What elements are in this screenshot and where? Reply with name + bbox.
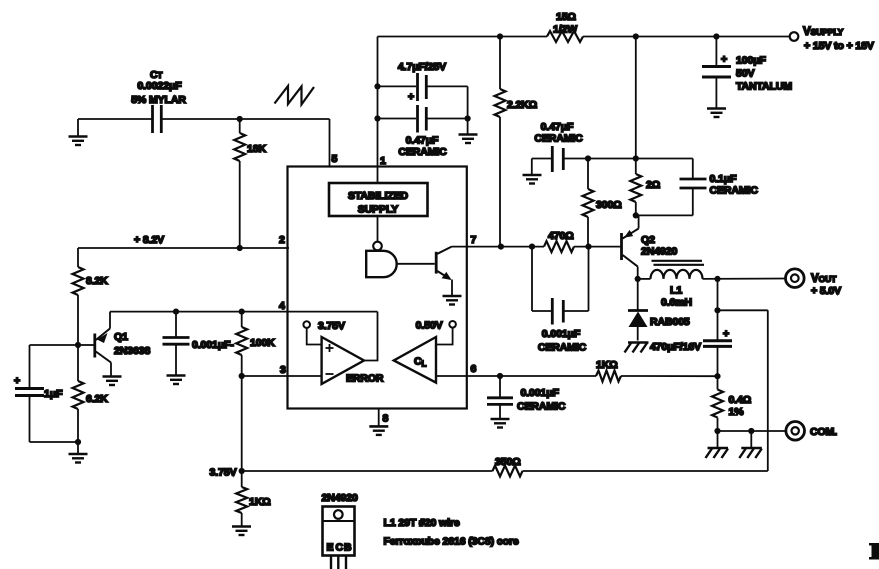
resistor 300 ohm: [587, 159, 589, 190]
node junction pin1/4.7uF: [374, 83, 380, 89]
svg-text:CL: CL: [414, 356, 426, 369]
wire gate output to internal transistor base: [398, 263, 435, 265]
svg-text:0.50V: 0.50V: [416, 320, 443, 332]
svg-text:Ferroxcube 2616 (3C8) core: Ferroxcube 2616 (3C8) core: [384, 536, 519, 548]
terminal 3.75V reference: [303, 321, 310, 328]
svg-text:0.0022μF: 0.0022μF: [137, 80, 182, 92]
svg-text:+: +: [408, 91, 414, 103]
wire branch to feedback riser: [718, 309, 768, 311]
node junction pin4/100K: [239, 309, 245, 315]
svg-text:50V: 50V: [736, 68, 754, 80]
svg-text:4: 4: [279, 300, 285, 312]
node junction Vout/470uF branch: [714, 276, 720, 282]
svg-text:C: C: [336, 542, 344, 554]
svg-text:1: 1: [380, 155, 386, 167]
svg-text:+: +: [721, 54, 727, 66]
wire +8.2V: [78, 247, 289, 249]
node junction feedback branch: [714, 307, 720, 313]
svg-text:CERAMIC: CERAMIC: [710, 185, 759, 197]
svg-text:100K: 100K: [250, 337, 275, 349]
node junction pin6/0.001uF: [497, 373, 503, 379]
svg-text:2N3638: 2N3638: [114, 345, 150, 357]
wire 100K column down to 3.75V node: [241, 376, 243, 471]
svg-text:SUPPLY: SUPPLY: [358, 204, 399, 216]
svg-text:8: 8: [383, 413, 389, 425]
capacitor 0.47uF ceramic (supply): [378, 118, 417, 120]
ground 0.001uF pin6: [491, 418, 510, 421]
node junction COM left: [714, 428, 720, 434]
svg-text:8.2K: 8.2K: [86, 275, 108, 287]
svg-text:COM.: COM.: [810, 426, 837, 438]
resistor 6.2K: [77, 345, 79, 381]
terminal 0.50V reference: [449, 321, 456, 328]
capacitor 0.1uF ceramic: [692, 159, 694, 179]
ground pin 8: [369, 425, 388, 428]
node junction 3.75V: [239, 468, 245, 474]
svg-text:0.1μF: 0.1μF: [710, 173, 738, 185]
wire pin 6 net: [467, 375, 596, 377]
svg-text:VOUT: VOUT: [811, 273, 837, 285]
node junction 0.47/300 ohm: [585, 155, 591, 161]
node junction bottom left: [75, 439, 81, 445]
chassis ground COM right: [750, 431, 752, 448]
svg-text:0.4Ω: 0.4Ω: [729, 394, 752, 406]
svg-text:2: 2: [279, 234, 285, 246]
resistor 8.2K: [77, 248, 79, 267]
inductor L1 0.6mH: [638, 278, 651, 280]
svg-text:1KΩ: 1KΩ: [596, 359, 618, 371]
svg-text:2N4920: 2N4920: [322, 492, 358, 504]
svg-text:0.6mH: 0.6mH: [661, 297, 692, 309]
wire L1 to VOUT: [703, 278, 786, 280]
ground bottom left: [77, 442, 79, 454]
node junction rail/2.2K: [497, 33, 503, 39]
node junction pin1/0.47uF: [374, 115, 380, 121]
node junction base node: [585, 244, 591, 250]
svg-text:2.2KΩ: 2.2KΩ: [507, 99, 537, 111]
stabilized supply block: [329, 183, 428, 216]
resistor 2.2K ohm: [499, 37, 501, 90]
svg-text:+ 5.0V: + 5.0V: [811, 285, 841, 297]
svg-text:0.001μF: 0.001μF: [542, 328, 581, 340]
svg-text:0.47μF: 0.47μF: [541, 121, 574, 133]
wire 4.7uF right side down: [467, 86, 469, 134]
wire upper node 158.5: [588, 158, 693, 160]
node junction rail/2 ohm column: [633, 33, 639, 39]
svg-text:470μF/16V: 470μF/16V: [650, 341, 701, 353]
svg-text:6: 6: [471, 363, 477, 375]
capacitor CT 0.0022uF 5% mylar: [151, 105, 154, 133]
wire CL to pin 6: [436, 375, 467, 377]
wire pin 5 column: [329, 119, 331, 167]
svg-text:100μF: 100μF: [736, 55, 767, 67]
wire feedback right riser: [767, 310, 769, 471]
capacitor 0.001uF ceramic (base speedup): [531, 247, 533, 311]
ground internal emitter: [443, 295, 462, 298]
wire top supply rail right segment: [583, 36, 789, 38]
gate inverter bubble: [373, 242, 382, 251]
svg-text:3.75V: 3.75V: [210, 467, 237, 479]
svg-text:1%: 1%: [729, 406, 745, 418]
wire pin 7 net: [452, 246, 544, 248]
svg-text:E: E: [327, 542, 334, 554]
ground below tantalum: [707, 107, 726, 110]
svg-text:0.47μF: 0.47μF: [406, 135, 439, 147]
svg-text:5: 5: [332, 153, 338, 165]
node junction 470uF/0.4 ohm: [714, 373, 720, 379]
svg-text:CERAMIC: CERAMIC: [534, 133, 583, 145]
svg-text:L1: L1: [670, 285, 682, 297]
transistor Q1 2N3638: [78, 344, 94, 346]
resistor 2 ohm: [635, 37, 637, 175]
resistor 100K: [241, 312, 243, 327]
terminal COM: [786, 422, 805, 441]
svg-text:1/2W: 1/2W: [553, 24, 577, 36]
wire ground to CT: [78, 118, 152, 120]
terminal VSUPPLY: [790, 32, 799, 41]
svg-text:Q2: Q2: [641, 234, 655, 246]
resistor 0.4 ohm 1%: [717, 376, 719, 389]
node junction 2 ohm top: [633, 155, 639, 161]
node junction pin3/100K: [239, 373, 245, 379]
svg-text:1KΩ: 1KΩ: [249, 496, 271, 508]
node junction Q1 base: [75, 342, 81, 348]
svg-text:Q1: Q1: [114, 331, 128, 343]
svg-text:3.75V: 3.75V: [318, 320, 345, 332]
node junction pin7/2.2K: [498, 244, 504, 250]
svg-text:470Ω: 470Ω: [548, 230, 574, 242]
op-amp ERROR: [322, 337, 364, 384]
node junction caps right side: [465, 115, 471, 121]
capacitor 100uF 50V tantalum: [715, 37, 717, 67]
resistor 1K ohm sense: [596, 371, 621, 382]
gate U1 (AND shape): [366, 251, 397, 277]
chassis ground COM left: [717, 431, 719, 448]
capacitor 470uF/16V: [703, 339, 732, 342]
ground below 1K: [232, 525, 251, 528]
svg-text:STABILIZED: STABILIZED: [348, 190, 409, 202]
svg-text:0.001μF-: 0.001μF-: [192, 339, 234, 351]
wire 1K to output node: [621, 375, 718, 377]
resistor 1K ohm bottom: [241, 471, 243, 487]
svg-text:3: 3: [280, 364, 286, 376]
wire COM: [718, 430, 786, 432]
capacitor 0.001uF (comp): [175, 312, 177, 337]
svg-text:0.001μF: 0.001μF: [521, 387, 560, 399]
node junction CT/18K: [237, 116, 243, 122]
ground Q1 collector: [103, 375, 122, 378]
wire Vout node down: [717, 279, 719, 340]
pin 8 stem: [378, 409, 380, 426]
svg-text:15Ω: 15Ω: [556, 11, 576, 23]
resistor 350 ohm: [493, 466, 523, 477]
wire pin 1 column: [377, 37, 379, 184]
svg-text:350Ω: 350Ω: [495, 456, 521, 468]
node junction pin4/0.001uF: [173, 309, 179, 315]
capacitor 1uF electrolytic: [30, 344, 79, 346]
svg-text:CERAMIC: CERAMIC: [398, 146, 447, 158]
svg-text:VSUPPLY: VSUPPLY: [803, 26, 844, 38]
wire pin 4 net: [110, 311, 378, 313]
node junction switch node: [635, 276, 641, 282]
svg-text:CERAMIC: CERAMIC: [538, 342, 587, 354]
svg-text:+ 8.2V: + 8.2V: [134, 234, 164, 246]
svg-text:1μF: 1μF: [44, 388, 63, 400]
svg-text:ERROR: ERROR: [346, 373, 384, 385]
svg-text:+: +: [723, 328, 729, 340]
svg-text:+ 15V to + 18V: + 15V to + 18V: [804, 40, 874, 52]
resistor 18K: [239, 119, 241, 133]
svg-text:TANTALUM: TANTALUM: [736, 81, 792, 93]
op-amp CL current limit: [394, 337, 436, 383]
ground below supply caps: [459, 133, 478, 136]
capacitor 0.001uF ceramic (pin6): [499, 376, 501, 397]
svg-text:6.2K: 6.2K: [86, 393, 108, 405]
svg-text:RAB005: RAB005: [650, 316, 690, 328]
transistor internal NPN: [435, 252, 438, 274]
node junction COM right: [748, 428, 754, 434]
wire top supply rail left segment: [378, 36, 548, 38]
svg-text:4.7μF/25V: 4.7μF/25V: [398, 61, 446, 73]
wire pin 3: [242, 375, 322, 377]
capacitor 0.47uF ceramic drive: [532, 158, 551, 160]
wire pin4 feedback wrap (inside IC): [364, 312, 378, 361]
svg-text:5% MYLAR: 5% MYLAR: [131, 94, 186, 106]
wire 470 ohm to base node: [574, 246, 620, 248]
svg-text:300Ω: 300Ω: [596, 199, 622, 211]
svg-text:2N4920: 2N4920: [641, 246, 677, 258]
ground 0.47uF ceramic drive: [531, 159, 533, 175]
node junction pin7/0.001uF left: [529, 244, 535, 250]
svg-text:B: B: [344, 542, 352, 554]
node junction 2 ohm bottom: [633, 212, 639, 218]
resistor 470 ohm: [544, 241, 574, 252]
chassis ground diode: [628, 341, 649, 343]
svg-text:2Ω: 2Ω: [646, 179, 660, 191]
svg-text:+: +: [14, 375, 20, 387]
svg-text:7: 7: [471, 234, 477, 246]
ground 0.001uF comp: [167, 374, 186, 377]
ground left of CT: [77, 119, 79, 136]
resistor 15 ohm 1/2W: [547, 31, 583, 42]
svg-text:18K: 18K: [247, 143, 266, 155]
sawtooth waveform symbol: [275, 86, 315, 105]
wire CT to pin5 corner: [163, 118, 330, 120]
diode RAB005: [637, 279, 639, 310]
svg-text:CERAMIC: CERAMIC: [517, 401, 566, 413]
capacitor 4.7uF/25V: [378, 85, 417, 87]
corner figure mark: [872, 543, 879, 560]
terminal VOUT: [786, 269, 805, 288]
op-amp IC outline (regulator block): [288, 167, 467, 409]
node junction 18K/+8.2V wire: [237, 245, 243, 251]
svg-text:L1 29T #20 wire: L1 29T #20 wire: [384, 517, 460, 529]
wire 350 ohm feedback right segment: [523, 470, 768, 472]
wire stabilized supply to gate bubble: [377, 216, 379, 242]
wire 350 ohm feedback left segment: [242, 470, 493, 472]
node junction rail/tantalum: [713, 33, 719, 39]
transistor Q2 2N4920: [620, 233, 623, 260]
